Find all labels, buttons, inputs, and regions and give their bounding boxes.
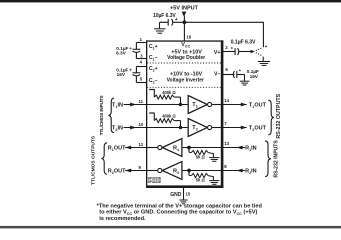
svg-text:Voltage Doubler: Voltage Doubler (167, 55, 205, 61)
svg-text:Voltage Inverter: Voltage Inverter (167, 78, 204, 84)
svg-text:GND: GND (170, 192, 182, 198)
svg-text:*The negative terminal of the: *The negative terminal of the V+ storage… (97, 203, 263, 209)
svg-text:+: + (129, 46, 132, 51)
svg-text:+: + (239, 68, 242, 73)
svg-text:T1IN: T1IN (112, 102, 123, 109)
svg-text:16: 16 (186, 35, 191, 40)
svg-text:5k Ω: 5k Ω (196, 154, 206, 159)
svg-text:*: * (231, 47, 233, 53)
svg-text:+: + (129, 67, 132, 72)
svg-text:10µF 6.3V: 10µF 6.3V (153, 13, 176, 19)
svg-text:T2OUT: T2OUT (249, 125, 267, 132)
svg-text:SP3222E: SP3222E (148, 180, 162, 184)
svg-text:14: 14 (224, 98, 229, 103)
svg-text:RS-232 OUTPUTS: RS-232 OUTPUTS (276, 93, 282, 138)
svg-text:12: 12 (139, 142, 144, 147)
svg-text:5k Ω: 5k Ω (196, 177, 206, 182)
svg-text:15: 15 (186, 192, 191, 197)
svg-text:16V: 16V (250, 74, 259, 79)
svg-text:11: 11 (139, 99, 144, 104)
svg-text:is recommended.: is recommended. (99, 216, 146, 222)
svg-text:V–: V– (214, 71, 220, 77)
svg-text:R2IN: R2IN (245, 168, 257, 175)
svg-text:R1IN: R1IN (245, 145, 257, 152)
svg-text:+: + (265, 45, 268, 50)
svg-text:13: 13 (224, 141, 229, 146)
svg-text:V+: V+ (214, 50, 221, 56)
svg-text:16V: 16V (117, 72, 126, 77)
svg-text:T2IN: T2IN (112, 125, 123, 132)
svg-text:0.1µF 6.3V: 0.1µF 6.3V (231, 40, 256, 46)
svg-text:RS-232 INPUTS: RS-232 INPUTS (274, 140, 280, 178)
svg-text:R1OUT: R1OUT (108, 145, 126, 152)
svg-text:TTL/CMOS OUTPUTS: TTL/CMOS OUTPUTS (91, 135, 97, 185)
svg-text:+5V INPUT: +5V INPUT (170, 5, 199, 11)
svg-text:400k Ω: 400k Ω (162, 113, 176, 118)
svg-text:400k Ω: 400k Ω (162, 90, 176, 95)
svg-text:10: 10 (139, 122, 144, 127)
svg-text:R2OUT: R2OUT (108, 168, 126, 175)
svg-text:T1OUT: T1OUT (249, 102, 267, 109)
svg-text:6.3V: 6.3V (116, 50, 127, 55)
svg-text:TTL/CMOS INPUTS: TTL/CMOS INPUTS (99, 95, 105, 136)
